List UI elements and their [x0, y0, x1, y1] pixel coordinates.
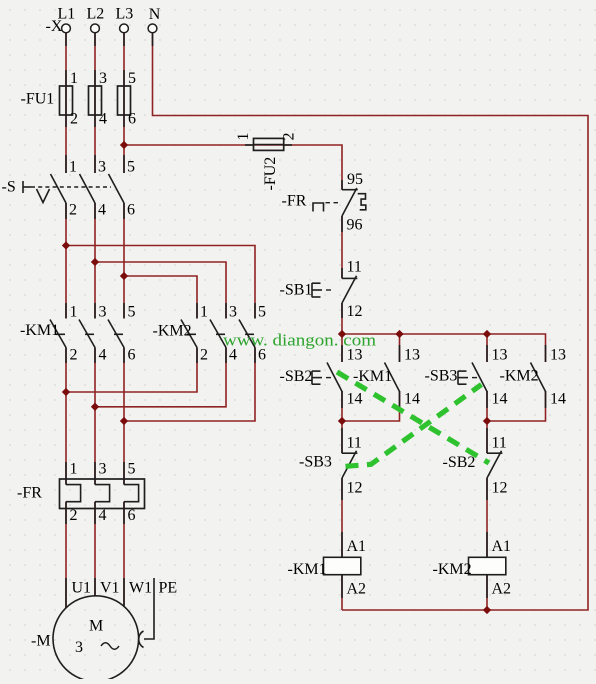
svg-text:14: 14 [347, 391, 363, 408]
svg-text:-X: -X [46, 18, 63, 35]
svg-text:3: 3 [75, 639, 83, 656]
svg-text:3: 3 [229, 304, 237, 321]
svg-text:2: 2 [70, 507, 78, 524]
svg-text:96: 96 [347, 217, 363, 234]
svg-text:1: 1 [235, 133, 252, 141]
svg-text:4: 4 [98, 202, 106, 219]
svg-text:V1: V1 [100, 580, 120, 597]
svg-text:-SB3: -SB3 [425, 368, 458, 385]
svg-text:2: 2 [281, 133, 298, 141]
svg-text:1: 1 [70, 461, 78, 478]
svg-text:-KM2: -KM2 [153, 323, 192, 340]
svg-text:14: 14 [404, 391, 420, 408]
svg-text:W1: W1 [129, 580, 152, 597]
svg-text:2: 2 [200, 347, 208, 364]
svg-text:www. diangon. com: www. diangon. com [223, 331, 376, 350]
svg-text:1: 1 [70, 70, 78, 87]
svg-text:6: 6 [127, 202, 135, 219]
svg-text:-FR: -FR [17, 485, 42, 502]
svg-text:3: 3 [99, 461, 107, 478]
svg-text:-FR: -FR [282, 193, 307, 210]
svg-text:12: 12 [492, 480, 508, 497]
svg-text:3: 3 [99, 70, 107, 87]
svg-text:12: 12 [347, 303, 363, 320]
svg-text:11: 11 [347, 259, 362, 276]
svg-text:2: 2 [69, 202, 77, 219]
svg-text:6: 6 [128, 111, 136, 128]
svg-text:2: 2 [70, 347, 78, 364]
svg-text:1: 1 [70, 304, 78, 321]
svg-text:12: 12 [347, 480, 363, 497]
svg-text:95: 95 [347, 171, 363, 188]
svg-text:-FU1: -FU1 [21, 91, 55, 108]
svg-text:-KM1: -KM1 [20, 322, 59, 339]
svg-text:6: 6 [128, 507, 136, 524]
svg-text:U1: U1 [72, 580, 92, 597]
svg-text:A2: A2 [492, 581, 512, 598]
svg-text:13: 13 [404, 347, 420, 364]
svg-text:6: 6 [128, 347, 136, 364]
svg-text:5: 5 [258, 304, 266, 321]
svg-text:4: 4 [99, 507, 107, 524]
svg-text:-SB1: -SB1 [280, 282, 313, 299]
svg-text:A1: A1 [492, 538, 512, 555]
svg-text:5: 5 [128, 304, 136, 321]
svg-text:3: 3 [98, 159, 106, 176]
svg-text:-FU2: -FU2 [262, 157, 279, 191]
svg-text:-KM1: -KM1 [288, 561, 327, 578]
svg-text:-SB3: -SB3 [299, 454, 332, 471]
svg-text:-M: -M [31, 633, 51, 650]
svg-text:2: 2 [70, 111, 78, 128]
svg-text:L3: L3 [116, 6, 134, 23]
svg-text:14: 14 [550, 391, 566, 408]
svg-text:-SB2: -SB2 [280, 368, 313, 385]
svg-text:A2: A2 [347, 581, 367, 598]
svg-text:5: 5 [128, 461, 136, 478]
svg-text:-SB2: -SB2 [443, 454, 476, 471]
svg-text:PE: PE [159, 580, 178, 597]
svg-text:13: 13 [550, 347, 566, 364]
svg-text:13: 13 [492, 347, 508, 364]
svg-text:11: 11 [347, 435, 362, 452]
svg-text:3: 3 [99, 304, 107, 321]
svg-text:11: 11 [492, 435, 507, 452]
svg-text:4: 4 [99, 111, 107, 128]
svg-text:-KM2: -KM2 [500, 368, 539, 385]
svg-text:M: M [89, 618, 103, 635]
svg-text:L2: L2 [87, 6, 105, 23]
svg-text:N: N [149, 6, 161, 23]
svg-text:A1: A1 [347, 538, 367, 555]
svg-text:-KM2: -KM2 [433, 561, 472, 578]
svg-text:14: 14 [492, 391, 508, 408]
svg-text:4: 4 [99, 347, 107, 364]
svg-text:5: 5 [128, 70, 136, 87]
svg-text:-S: -S [2, 179, 16, 196]
svg-text:1: 1 [69, 159, 77, 176]
svg-text:1: 1 [200, 304, 208, 321]
svg-text:5: 5 [127, 159, 135, 176]
